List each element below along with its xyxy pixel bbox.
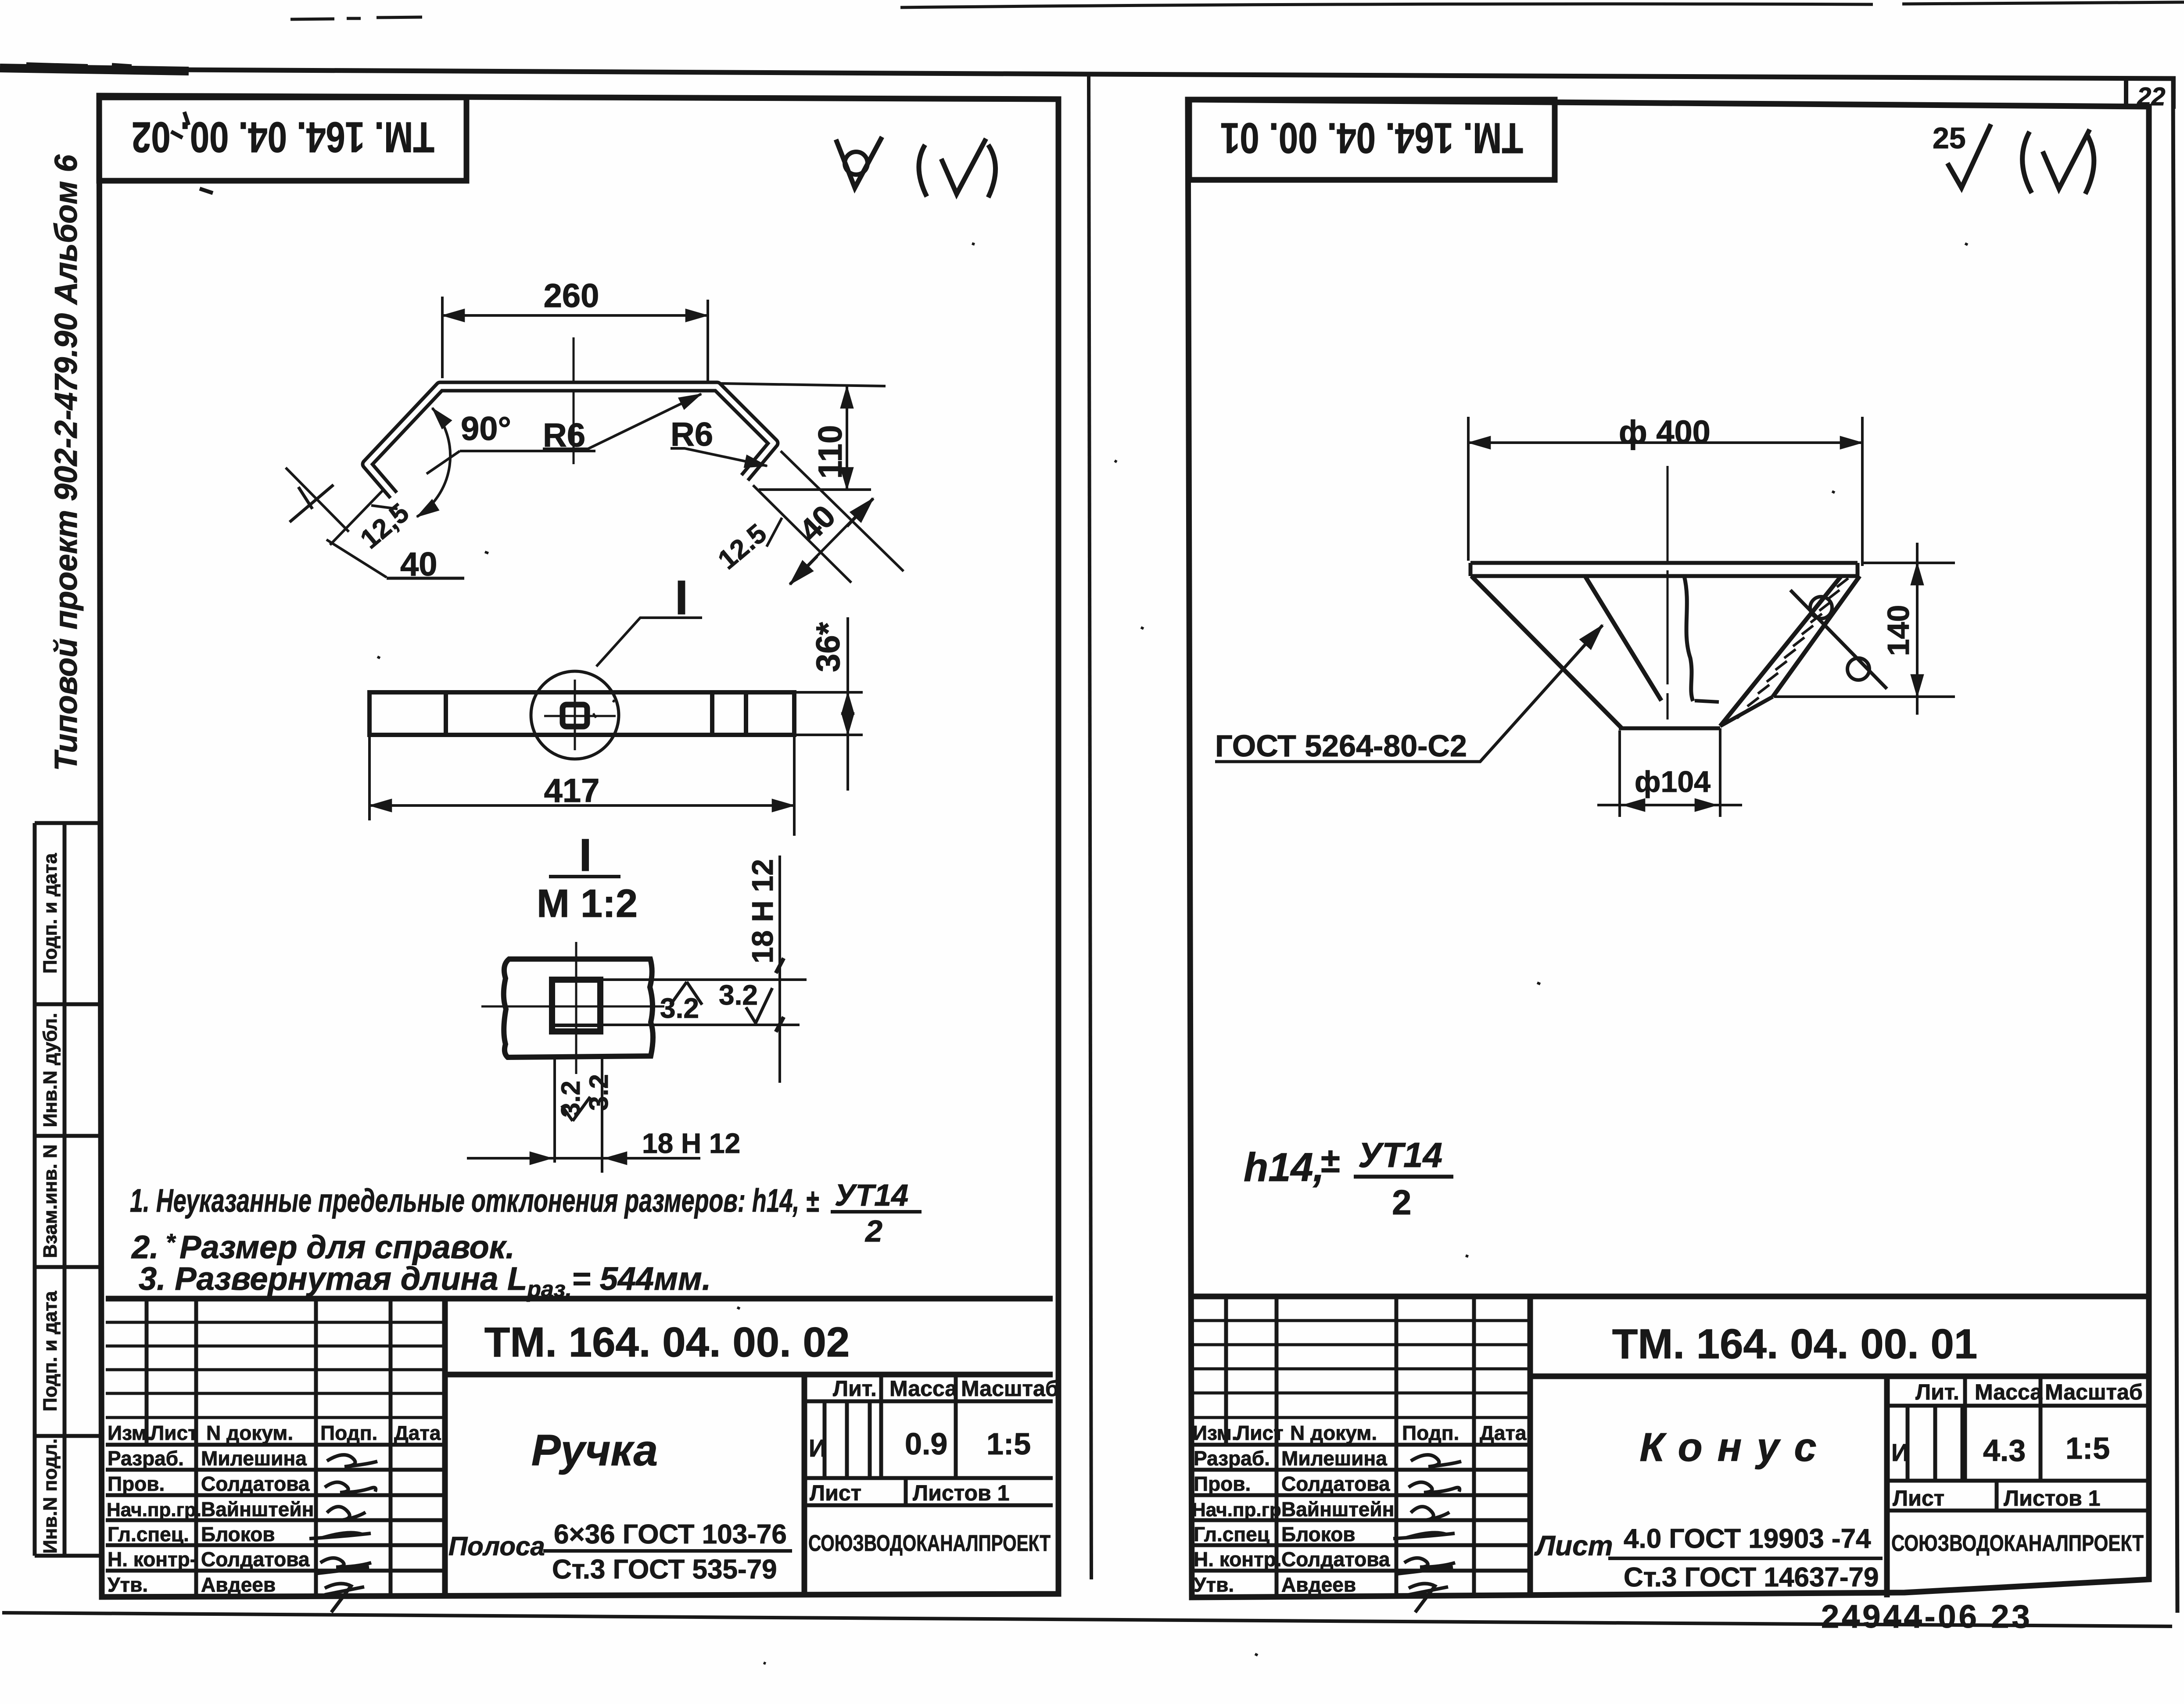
svg-text:Лит.: Лит. [1915, 1380, 1959, 1404]
svg-text:ГОСТ 5264-80-С2: ГОСТ 5264-80-С2 [1215, 729, 1467, 763]
90 deg arc with arrows [417, 408, 450, 517]
lit/massa/masshtab section [1887, 1404, 2149, 1408]
left column verticals [1226, 1296, 1474, 1597]
svg-text:0.9: 0.9 [905, 1427, 947, 1461]
top dashes left group [290, 17, 422, 19]
dim 110: bottom extension line [759, 488, 871, 491]
svg-text:Масштаб: Масштаб [2045, 1380, 2143, 1404]
dim d400: extension lines [1468, 417, 1862, 566]
bar top/bottom edge extensions to right [794, 692, 863, 735]
18H12 right arrows [776, 958, 784, 1032]
cone inner surface S-curve [1684, 576, 1693, 701]
leader from circle to I callout [596, 618, 702, 666]
svg-text:Масса: Масса [889, 1376, 958, 1401]
signatures squiggles [327, 1455, 377, 1467]
svg-text:И: И [1891, 1439, 1909, 1466]
svg-text:Авдеев: Авдеев [1281, 1573, 1356, 1596]
outer and main grid [106, 1296, 1053, 1302]
svg-text:3.2: 3.2 [660, 992, 699, 1024]
svg-text:Гл.спец: Гл.спец [1194, 1523, 1270, 1546]
svg-text:Листов 1: Листов 1 [2004, 1486, 2100, 1511]
svg-text:Ст.3 ГОСТ 535-79: Ст.3 ГОСТ 535-79 [552, 1554, 777, 1585]
svg-text:2.*Размер для справок.: 2.*Размер для справок. [131, 1228, 515, 1265]
svg-text:Ручка: Ручка [531, 1426, 658, 1475]
svg-text:Н. контр.: Н. контр. [1194, 1548, 1282, 1571]
roughness mark (check in parens) right sheet [2023, 132, 2032, 193]
svg-text:417: 417 [544, 772, 600, 809]
cone left outer slope [1471, 576, 1622, 728]
cone right wall inner line [1720, 576, 1841, 726]
svg-text:4.3: 4.3 [1983, 1433, 2026, 1468]
cone right wall outer line [1773, 576, 1860, 697]
left sheet frame [99, 96, 1058, 1597]
svg-text:24944-06 23: 24944-06 23 [1821, 1598, 2033, 1635]
dim 140: dimension line [1916, 543, 1919, 715]
svg-text:Гл.спец.: Гл.спец. [108, 1523, 189, 1546]
cone right wall bottom edge [1720, 697, 1773, 726]
svg-text:Пров.: Пров. [108, 1472, 165, 1495]
svg-text:УТ14: УТ14 [1358, 1135, 1442, 1174]
svg-text:36*: 36* [810, 622, 847, 673]
svg-text:Нач.пр.гр.: Нач.пр.гр. [107, 1499, 201, 1521]
svg-text:I: I [579, 830, 592, 881]
svg-text:22: 22 [2137, 82, 2166, 111]
svg-text:ТМ. 164. 04. 00. 02: ТМ. 164. 04. 00. 02 [132, 113, 434, 161]
cone top flange [1470, 563, 1858, 576]
cone left inner slope [1585, 576, 1661, 701]
noise specks [377, 243, 1968, 1664]
svg-text:Типовой проект 902-2-479.90: Типовой проект 902-2-479.90 Альбом 6 [49, 154, 84, 771]
svg-text:ТМ. 164. 04. 00. 01: ТМ. 164. 04. 00. 01 [1612, 1321, 1978, 1367]
roughness mark circled check (left sheet) [836, 137, 882, 188]
svg-text:±: ± [1321, 1141, 1340, 1180]
svg-text:Ст.3 ГОСТ 14637-79: Ст.3 ГОСТ 14637-79 [1624, 1562, 1879, 1593]
dim d400: dimension line [1468, 441, 1862, 444]
svg-text:СОЮЗВОДОКАНАЛПРОЕКТ: СОЮЗВОДОКАНАЛПРОЕКТ [1891, 1531, 2144, 1556]
18H12 bottom dim line with arrows [467, 1157, 700, 1160]
svg-text:18 Н 12: 18 Н 12 [642, 1128, 740, 1159]
svg-text:ТМ. 164. 04. 00. 02: ТМ. 164. 04. 00. 02 [484, 1319, 850, 1366]
page number 22 box [2126, 79, 2173, 109]
svg-text:2: 2 [864, 1214, 882, 1248]
svg-text:Инв.N подл.: Инв.N подл. [39, 1439, 61, 1554]
svg-text:Листов 1: Листов 1 [913, 1481, 1009, 1505]
right 12.5 leader [767, 518, 782, 547]
svg-text:ТМ. 164. 04. 00. 01: ТМ. 164. 04. 00. 01 [1220, 114, 1523, 162]
svg-text:УТ14: УТ14 [835, 1178, 908, 1212]
svg-text:Н. контр-: Н. контр- [108, 1548, 197, 1571]
svg-text:СОЮЗВОДОКАНАЛПРОЕКТ: СОЮЗВОДОКАНАЛПРОЕКТ [808, 1531, 1051, 1556]
svg-text:Утв.: Утв. [108, 1573, 148, 1596]
detail circle [531, 671, 619, 759]
svg-text:М 1:2: М 1:2 [537, 882, 638, 926]
left foot cut extension [330, 490, 383, 545]
svg-text:h14,: h14, [1244, 1145, 1324, 1190]
svg-text:Солдатова: Солдатова [201, 1548, 310, 1571]
svg-text:Милешина: Милешина [201, 1447, 307, 1470]
header row lines [106, 1443, 445, 1447]
dim 260: extension lines [442, 297, 708, 381]
svg-text:3.2: 3.2 [719, 979, 758, 1011]
svg-text:Вайнштейн: Вайнштейн [201, 1498, 314, 1521]
dim 36*: dimension line vertical [846, 617, 849, 791]
dim 140: extension lines [1774, 563, 1955, 697]
right foot 40-dim extension lines (45deg) [753, 451, 904, 583]
dim d104: extension lines [1620, 728, 1720, 817]
svg-text:3.2: 3.2 [584, 1074, 613, 1110]
svg-text:Солдатова: Солдатова [1281, 1472, 1390, 1495]
svg-text:Полоса: Полоса [448, 1532, 545, 1561]
svg-text:140: 140 [1881, 605, 1915, 656]
svg-text:25: 25 [1933, 122, 1966, 155]
top scan rule full width [0, 69, 2176, 79]
svg-text:Лист: Лист [1236, 1421, 1284, 1444]
square hole (plan) [563, 705, 587, 727]
svg-text:Дата: Дата [1480, 1421, 1527, 1444]
left 12,5 leader [371, 505, 398, 509]
svg-text:110: 110 [812, 425, 849, 479]
svg-text:1. Неуказанные предельные от: 1. Неуказанные предельные отклонения раз… [130, 1182, 819, 1219]
detail hole back edge [552, 1024, 600, 1027]
roughness mark (check in parens) left sheet [919, 145, 927, 197]
dim d104: dimension line with arrows [1597, 804, 1742, 806]
svg-text:Изм.: Изм. [108, 1421, 152, 1444]
bar bend division lines [446, 692, 746, 735]
svg-text:1:5: 1:5 [2066, 1431, 2110, 1465]
svg-text:Разраб.: Разраб. [1194, 1447, 1270, 1470]
svg-text:18 Н 12: 18 Н 12 [746, 859, 779, 963]
LEFT_SHEET [35, 96, 1059, 1612]
svg-text:Подп.: Подп. [1402, 1421, 1459, 1444]
svg-text:Солдатова: Солдатова [201, 1472, 310, 1495]
svg-text:Нач.пр.гр: Нач.пр.гр [1192, 1499, 1281, 1521]
svg-text:Лист: Лист [1534, 1530, 1613, 1561]
detail patch outline with break edges [504, 959, 653, 1057]
svg-text:2: 2 [1392, 1183, 1412, 1222]
cone centerline [1667, 466, 1669, 720]
svg-text:260: 260 [544, 277, 599, 315]
hole edge verticals below [555, 1059, 602, 1173]
svg-text:4.0 ГОСТ 19903 -74: 4.0 ГОСТ 19903 -74 [1624, 1524, 1871, 1554]
svg-text:90°: 90° [461, 410, 511, 447]
svg-text:Милешина: Милешина [1281, 1447, 1387, 1470]
bottom page edge line [2, 1613, 2172, 1626]
svg-text:ф 400: ф 400 [1619, 414, 1711, 450]
dim 110: dimension line [846, 386, 848, 490]
right scan edge vertical [2173, 80, 2177, 1613]
svg-text:Подп.: Подп. [320, 1421, 377, 1444]
svg-text:И: И [809, 1434, 826, 1462]
dim 417: extension lines [369, 735, 794, 836]
profile centerline [573, 337, 575, 464]
18H12 right ext lines [600, 980, 807, 1025]
dim 110: top extension line [720, 383, 886, 386]
svg-text:Вайнштейн: Вайнштейн [1281, 1498, 1394, 1521]
upper mini table rows [106, 1322, 445, 1418]
crosshair centerlines [544, 680, 616, 750]
left column verticals [147, 1299, 391, 1596]
svg-text:Взам.инв. N: Взам.инв. N [39, 1144, 61, 1258]
right sheet frame [1188, 100, 2149, 1597]
svg-text:ф104: ф104 [1635, 765, 1711, 798]
svg-text:Разраб.: Разраб. [108, 1447, 184, 1470]
svg-text:Солдатова: Солдатова [1281, 1548, 1390, 1571]
svg-text:Пров.: Пров. [1194, 1472, 1251, 1495]
svg-text:1:5: 1:5 [986, 1427, 1031, 1461]
svg-text:Изм.: Изм. [1193, 1421, 1237, 1444]
cone neck bottom [1619, 727, 1720, 730]
cone right wall hatch [1737, 578, 1848, 718]
svg-text:Подп. и дата: Подп. и дата [39, 853, 61, 974]
svg-text:Утв.: Утв. [1194, 1573, 1234, 1596]
RIGHT_SHEET [1188, 79, 2173, 1635]
right foot dim line with outside arrows [795, 505, 867, 578]
weld symbol line with circles [1790, 590, 1887, 689]
top thin line right half [900, 4, 1873, 7]
signature rows [106, 1470, 445, 1571]
svg-text:Лист: Лист [1893, 1486, 1944, 1511]
signatures squiggles right [1411, 1455, 1461, 1467]
18H12 right dim line vertical [778, 856, 781, 1083]
svg-text:Лист: Лист [810, 1481, 861, 1505]
svg-text:Блоков: Блоков [1281, 1523, 1356, 1546]
svg-text:Блоков: Блоков [201, 1523, 275, 1546]
dim 260: dimension line with arrows [442, 314, 708, 317]
svg-text:6×36 ГОСТ 103-76: 6×36 ГОСТ 103-76 [554, 1519, 787, 1550]
svg-text:Лит.: Лит. [833, 1376, 877, 1401]
svg-text:N докум.: N докум. [1290, 1421, 1377, 1444]
header + signature rows [1192, 1443, 1530, 1447]
detail centerlines [481, 942, 664, 1074]
lit/massa/masshtab section [804, 1400, 1053, 1403]
svg-text:Конус: Конус [1639, 1425, 1831, 1470]
svg-text:Инв.N дубл.: Инв.N дубл. [39, 1013, 61, 1128]
dim 417: dimension line [369, 804, 794, 807]
profile bent strip (double line via overlay) [367, 387, 774, 495]
stamp box TM.164.04.00.01 (rotated 180) [1189, 100, 1555, 180]
svg-text:Подп. и дата: Подп. и дата [39, 1291, 61, 1411]
fold line between sheets [1089, 75, 1091, 1579]
svg-text:Авдеев: Авдеев [201, 1573, 276, 1596]
svg-text:Лист: Лист [150, 1421, 198, 1444]
bar outline [369, 692, 794, 735]
left foot dim ticks/arrows [290, 485, 334, 522]
svg-text:I: I [675, 571, 689, 625]
top-left smear on scan rule [0, 68, 189, 71]
upper mini table rows [1192, 1321, 1530, 1418]
svg-text:Масса: Масса [1975, 1380, 2043, 1404]
svg-text:Дата: Дата [394, 1421, 441, 1444]
stamp box TM.164.04.00.02 (rotated 180) [99, 97, 466, 181]
left foot 40-dim extension lines (45deg) [286, 468, 387, 577]
detail square hole [552, 980, 600, 1031]
svg-text:Масштаб: Масштаб [961, 1376, 1059, 1401]
svg-text:N докум.: N докум. [206, 1421, 293, 1444]
